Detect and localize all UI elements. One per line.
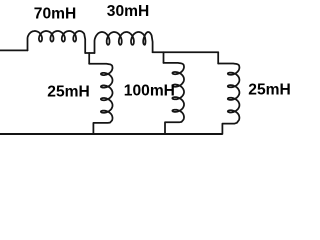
- svg-text:30mH: 30mH: [107, 3, 149, 20]
- wire: drop to 100mH branch: [163, 52, 165, 63]
- inductor LA 25mH (left vertical coil): [89, 64, 112, 134]
- svg-text:25mH: 25mH: [47, 83, 89, 100]
- wire: drop from junction to 25mH left branch: [88, 53, 90, 64]
- inductor LB 100mH (middle vertical coil): [164, 63, 185, 134]
- inductor LC 25mH (right vertical coil): [218, 64, 239, 135]
- wire: top rail from 30mH to right branch: [153, 51, 219, 53]
- wire: drop at right end to 25mH right branch: [217, 52, 219, 63]
- wire: bottom rail: [0, 133, 222, 135]
- svg-text:70mH: 70mH: [34, 6, 76, 23]
- inductor L1 70mH (top-left horizontal coil): [28, 31, 86, 53]
- svg-text:100mH: 100mH: [124, 82, 175, 99]
- svg-text:25mH: 25mH: [248, 81, 290, 98]
- wire: left top terminal: [0, 49, 28, 51]
- inductor L2 30mH (top-right horizontal coil): [95, 32, 153, 53]
- wire: junction between 70mH and 30mH: [85, 52, 94, 54]
